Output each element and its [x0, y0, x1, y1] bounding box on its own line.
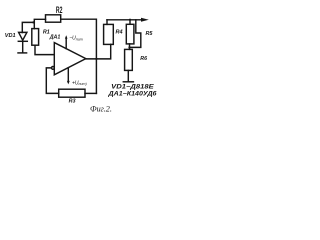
svg-text:VD1−Д818Е: VD1−Д818Е	[111, 83, 155, 90]
svg-text:ДА1−К140УД6: ДА1−К140УД6	[107, 90, 157, 97]
svg-text:R3: R3	[69, 98, 76, 104]
svg-text:R4: R4	[116, 29, 123, 35]
svg-text:ДА1: ДА1	[49, 34, 61, 40]
svg-text:R5: R5	[146, 31, 154, 37]
svg-text:−Uпит: −Uпит	[69, 36, 83, 42]
svg-text:R2: R2	[56, 5, 63, 15]
svg-text:R6: R6	[140, 56, 147, 62]
svg-text:VD1: VD1	[5, 33, 16, 39]
svg-text:+Uпит): +Uпит)	[72, 80, 87, 86]
svg-text:Фиг.2.: Фиг.2.	[90, 105, 112, 114]
